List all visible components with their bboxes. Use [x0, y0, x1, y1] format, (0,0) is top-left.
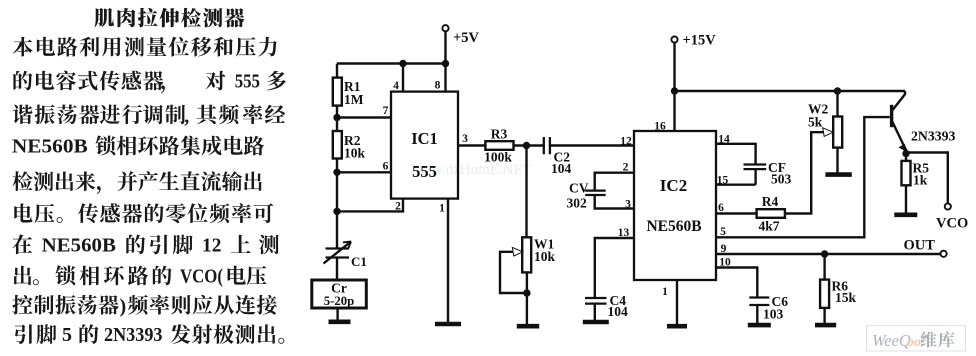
svg-text:R3: R3	[491, 127, 508, 142]
wire pin 13	[595, 238, 634, 298]
wire pin 2	[337, 199, 403, 212]
svg-text:6: 6	[718, 202, 724, 214]
capacitor C6	[749, 298, 769, 306]
svg-text:,: ,	[184, 105, 189, 127]
wire +15V rail	[675, 90, 906, 92]
svg-text:503: 503	[771, 172, 792, 187]
resistor R4	[757, 209, 785, 218]
svg-text:10k: 10k	[534, 249, 556, 264]
svg-text:555: 555	[412, 162, 437, 181]
wire pin 5 to transistor base	[716, 117, 890, 237]
svg-text:VCO(: VCO(	[180, 265, 223, 287]
wire	[336, 106, 338, 131]
svg-text:12: 12	[620, 135, 632, 147]
capacitor C4	[585, 298, 607, 304]
wire to VCO terminal	[906, 153, 948, 204]
wire pin 7	[337, 116, 391, 118]
wire	[823, 254, 825, 280]
+5V power terminal	[442, 25, 448, 31]
svg-text:+5V: +5V	[453, 30, 480, 46]
node junction R3-C2-W1	[523, 142, 530, 149]
resistor R3	[485, 141, 513, 150]
ground	[748, 323, 771, 328]
capacitor CV	[585, 191, 606, 195]
node top-left rail	[337, 62, 446, 64]
VCO terminal	[945, 203, 951, 209]
wire W1 wiper	[500, 252, 527, 293]
wire	[336, 64, 338, 78]
+15V power terminal	[671, 36, 677, 42]
svg-text:1M: 1M	[344, 92, 364, 107]
svg-text:10k: 10k	[344, 146, 366, 161]
svg-text:1: 1	[439, 203, 445, 215]
wire pin 9 OUT line	[716, 253, 940, 255]
wire pin 15	[716, 169, 756, 185]
node junction R2-pin6	[333, 169, 340, 176]
wire	[525, 146, 527, 238]
svg-text:2N3393: 2N3393	[104, 324, 163, 346]
ground	[667, 324, 687, 329]
svg-text:3: 3	[625, 199, 631, 211]
ground	[583, 320, 609, 325]
wire	[905, 149, 907, 161]
wire pin 6	[337, 171, 391, 173]
svg-text:10: 10	[719, 256, 731, 268]
wire	[336, 159, 338, 249]
svg-text:4: 4	[393, 80, 399, 92]
wire R4 to W2 wiper	[785, 132, 824, 213]
svg-text:5: 5	[720, 226, 726, 238]
svg-text:w.dzHomE.NET: w.dzHomE.NET	[432, 162, 532, 178]
node emitter junction	[902, 150, 909, 157]
svg-text:NE560B: NE560B	[12, 136, 88, 158]
svg-text:2N3393: 2N3393	[911, 129, 956, 144]
wire	[336, 308, 338, 320]
wire pin 16	[673, 43, 675, 131]
svg-text:IC1: IC1	[411, 129, 438, 148]
svg-text:555: 555	[235, 72, 261, 93]
svg-text:15: 15	[717, 174, 729, 186]
wire pin 12	[550, 144, 634, 146]
svg-text:104: 104	[551, 161, 572, 176]
wire pin 3	[595, 195, 634, 209]
resistor R6	[820, 280, 829, 308]
ground	[815, 323, 836, 328]
wire pin4 stem	[402, 64, 404, 92]
svg-text:14: 14	[718, 133, 730, 145]
svg-text:7: 7	[383, 105, 389, 117]
svg-text:IC2: IC2	[660, 176, 687, 195]
wire	[905, 185, 907, 212]
capacitor CF	[744, 165, 767, 170]
op-amp IC2 NE560B phase-locked loop	[634, 131, 716, 280]
wire pin 6	[716, 212, 757, 214]
svg-text:2: 2	[395, 201, 401, 213]
transistor Q1 2N3393	[892, 91, 907, 151]
ground	[329, 319, 351, 324]
svg-text:2: 2	[623, 162, 629, 174]
svg-text:OUT: OUT	[904, 238, 936, 254]
ground	[894, 213, 917, 218]
ground	[517, 324, 539, 329]
svg-text:1: 1	[662, 286, 668, 298]
svg-text:8: 8	[435, 80, 441, 92]
wire IC1 pin 1	[447, 199, 449, 322]
ground	[825, 172, 851, 177]
capacitor C2	[544, 137, 550, 154]
svg-text:100k: 100k	[484, 150, 512, 165]
svg-text:103: 103	[763, 307, 784, 322]
svg-text:NE560B: NE560B	[42, 234, 116, 256]
wire pin 2	[595, 173, 634, 190]
wire	[836, 91, 838, 117]
svg-text:4k7: 4k7	[758, 219, 779, 234]
wire	[594, 304, 596, 320]
node junction W1 wiper-bottom	[523, 289, 530, 296]
svg-text:12: 12	[202, 234, 221, 256]
svg-text:1k: 1k	[913, 173, 928, 188]
svg-text:NE560B: NE560B	[646, 218, 701, 235]
svg-text:5k: 5k	[808, 115, 823, 130]
svg-text:VCO: VCO	[936, 216, 968, 232]
wire	[756, 305, 758, 323]
wire	[823, 308, 825, 323]
svg-text:302: 302	[567, 196, 588, 211]
capacitor C1 variable	[324, 242, 352, 264]
wire	[514, 144, 544, 146]
svg-text:CV: CV	[569, 181, 589, 196]
svg-text:5-20p: 5-20p	[324, 294, 355, 308]
node junction OUT-R6	[821, 250, 828, 257]
wire	[836, 148, 838, 173]
svg-text:5: 5	[62, 324, 72, 346]
wire pin 14	[716, 144, 756, 164]
svg-text:6: 6	[383, 161, 389, 173]
svg-text:+15V: +15V	[683, 33, 717, 49]
svg-text:9: 9	[721, 243, 727, 255]
wire pin 3	[458, 144, 485, 146]
sensor Cr 5-20p	[312, 280, 367, 308]
wire	[526, 272, 528, 325]
wire IC2 pin 1	[676, 280, 678, 324]
svg-text:WeeQ: WeeQ	[872, 331, 911, 350]
wire	[444, 31, 446, 91]
wire pin 10	[716, 268, 757, 298]
op-amp IC1 555 timer	[391, 92, 458, 199]
svg-text:15k: 15k	[835, 290, 857, 305]
wire	[336, 258, 338, 281]
resistor R5	[902, 161, 911, 185]
potentiometer W2	[833, 117, 842, 148]
potentiometer W1	[522, 237, 531, 272]
node junction R1-R2-pin7	[333, 114, 340, 121]
svg-text:C1: C1	[351, 254, 367, 269]
ground	[435, 322, 461, 327]
svg-text:104: 104	[608, 304, 629, 319]
svg-text:3: 3	[462, 133, 468, 145]
resistor R2	[333, 131, 342, 159]
svg-text:): )	[120, 296, 127, 318]
node junction pin2-C1	[333, 208, 340, 215]
node junction +15V rail	[671, 87, 678, 94]
OUT terminal	[941, 251, 947, 257]
svg-text:R4: R4	[762, 194, 779, 209]
svg-text:oo: oo	[907, 335, 921, 350]
svg-text:13: 13	[618, 227, 630, 239]
resistor R1	[333, 78, 342, 106]
